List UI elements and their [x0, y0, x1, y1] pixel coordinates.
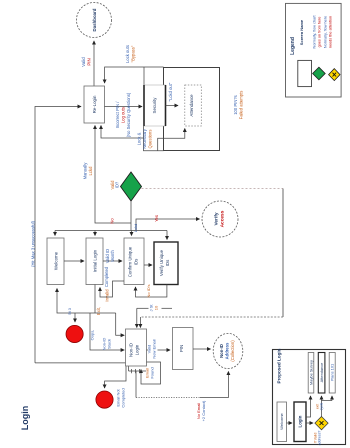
svg-text:Lock outs: Lock outs: [125, 45, 130, 63]
wire Manually Lckd riser to Re-Login bottom: [95, 126, 131, 224]
svg-text:10: 10: [154, 305, 159, 310]
svg-text:PIN: PIN: [87, 58, 92, 65]
wire Security to Attendance: [166, 105, 179, 107]
svg-text:No ID's: No ID's: [146, 285, 151, 298]
svg-text:Incorrect PIN /: Incorrect PIN /: [115, 101, 120, 129]
wire Attendance return loop: [158, 129, 185, 151]
node Non-ID Address (Collection) dashed circle: [213, 333, 243, 368]
process Attendance (dashed): [185, 85, 202, 126]
wire bottom bus with arrow up into Welcome: [57, 289, 116, 314]
svg-text:St 3: St 3: [68, 308, 72, 315]
wire bus to top boxes: [131, 230, 167, 232]
wire Initial Login to Confirm: [103, 260, 122, 262]
svg-text:Address: Address: [225, 342, 230, 359]
svg-text:Confirm Unique: Confirm Unique: [128, 246, 133, 277]
process Verify Unique IDs (thick): [154, 242, 178, 285]
svg-text:Attendance: Attendance: [319, 363, 324, 383]
svg-text:goes on from here: goes on from here: [318, 17, 322, 48]
process Welcome (panel): [277, 402, 287, 442]
wire Initial Login bottom down: [94, 285, 96, 314]
svg-text:Login: Login: [298, 415, 303, 427]
process Login (panel, thick): [294, 402, 306, 442]
svg-text:address?: address?: [318, 431, 322, 446]
wire top elbow into Re-Login: [105, 67, 164, 83]
wire container1 bottom ledge: [144, 126, 164, 151]
svg-text:IDs: IDs: [134, 258, 139, 265]
wire PIN to Non-ID Address: [193, 348, 211, 350]
svg-text:Necessary: Necessary: [142, 128, 147, 149]
wire Re-Login to Security: [105, 106, 143, 108]
svg-text:Verify: Verify: [214, 212, 220, 225]
svg-text:New Email: New Email: [152, 339, 157, 358]
wire dotted return: [135, 371, 137, 398]
wire Welcome to Login: [287, 422, 293, 424]
svg-text:Attendance: Attendance: [189, 94, 194, 117]
svg-text:(No Security Questions): (No Security Questions): [126, 92, 131, 137]
svg-text:Log outs: Log outs: [121, 107, 126, 123]
svg-text:Dashboard: Dashboard: [92, 8, 97, 31]
svg-text:ID?: ID?: [115, 181, 120, 188]
end error red circle 1: [66, 325, 83, 342]
wire to error end 2: [105, 367, 126, 389]
process Security (thick sides): [144, 85, 166, 126]
svg-text:No: No: [110, 218, 115, 224]
legend yellow diamond with X: [329, 69, 340, 81]
process PIN: [173, 328, 194, 370]
wires into panel boxes: [306, 396, 311, 417]
svg-text:Plans 101: Plans 101: [330, 364, 335, 381]
legend box: [286, 3, 342, 97]
legend green diamond: [313, 67, 326, 80]
wire down into error end 1: [74, 313, 76, 322]
svg-text:"Lckd out": "Lckd out": [168, 82, 173, 101]
legend screen rect symbol: [298, 60, 312, 86]
wire Welcome to Initial Login: [64, 260, 84, 262]
svg-text:Non-ID: Non-ID: [219, 344, 224, 358]
svg-text:Security: Security: [152, 97, 157, 114]
process Initial Login: [86, 238, 103, 285]
svg-text:Welcome: Welcome: [279, 412, 284, 429]
wires double arrows into Non-ID Login top: [136, 308, 138, 327]
wire down to Non-ID Login: [90, 313, 124, 350]
wire retry loop under Non-ID Login: [141, 362, 161, 384]
wire stub into Security top: [143, 67, 145, 85]
process Maybe Survey: [308, 353, 314, 394]
svg-text:Normally, flow here: Normally, flow here: [323, 16, 327, 48]
svg-text:100 PIN?s: 100 PIN?s: [233, 95, 238, 115]
process Plans 101: [329, 353, 335, 394]
decision yellow diamond with X: [315, 417, 328, 430]
wire Security return to Re-Login: [101, 126, 144, 139]
node Verify Access (dashed circle): [202, 201, 238, 237]
svg-text:Lckd: Lckd: [88, 166, 93, 176]
svg-text:Stuck: Stuck: [107, 339, 112, 349]
process Re-Login: [84, 86, 105, 123]
svg-text:Maybe Survey: Maybe Survey: [308, 360, 313, 385]
decision green diamond Valid ID?: [121, 172, 142, 201]
wire Login to yellow diamond: [306, 422, 313, 424]
svg-text:Non-ID: Non-ID: [128, 343, 133, 357]
process Attendance (panel, thick): [318, 353, 325, 394]
svg-text:Normally, flow chart: Normally, flow chart: [313, 15, 317, 49]
svg-text:Completed: Completed: [104, 266, 109, 287]
svg-text:Proposed Login: Proposed Login: [277, 348, 282, 383]
svg-text:Found: Found: [150, 367, 155, 378]
svg-text:Welcome: Welcome: [54, 251, 59, 270]
wire left long line into Re-Login: [35, 107, 81, 363]
svg-text:Login: Login: [134, 344, 139, 355]
svg-text:Valid: Valid: [81, 57, 86, 67]
process Confirm Unique IDs: [124, 238, 144, 285]
process Welcome: [47, 238, 64, 285]
wire feed line with J St 10 label: [137, 307, 149, 309]
svg-text:cycle: cycle: [320, 403, 324, 411]
svg-text:Oops,: Oops,: [90, 330, 95, 341]
svg-text:(Collection): (Collection): [230, 340, 235, 362]
container 2 (group box): [164, 68, 220, 151]
svg-text:Legend: Legend: [290, 37, 296, 55]
process Non-ID Login: [126, 329, 147, 366]
svg-text:PIN: PIN: [179, 345, 184, 352]
svg-text:Month: Month: [110, 250, 115, 262]
svg-text:(Hit Max 3 unsuccessful): (Hit Max 3 unsuccessful): [31, 220, 36, 266]
end error red circle 2: [96, 391, 113, 408]
svg-text:Lckd: Lckd: [133, 224, 138, 232]
svg-text:Exit,: Exit,: [96, 307, 101, 315]
wire diamond down: [130, 201, 132, 231]
wire arrow to Dashboard: [93, 41, 95, 86]
wire Verify bottom to Confirm bottom return: [136, 285, 167, 298]
container 3 (dashed top, solid right/bottom): [142, 188, 284, 190]
svg-text:Login: Login: [20, 406, 30, 431]
wire circle bottom return: [136, 397, 200, 399]
svg-text:Initial Login: Initial Login: [93, 249, 98, 272]
svg-text:Lock &: Lock &: [137, 132, 142, 145]
wire invalid return into Initial Login bottom: [100, 281, 124, 297]
svg-text:needs the attention: needs the attention: [328, 16, 332, 48]
svg-text:Questions: Questions: [148, 130, 153, 149]
wire Yes line to Verify Access: [136, 219, 200, 231]
svg-text:+2 Contact): +2 Contact): [201, 400, 206, 421]
svg-text:Yes: Yes: [154, 215, 159, 222]
svg-text:Invalid: Invalid: [105, 289, 110, 302]
svg-text:Failed attempts: Failed attempts: [239, 91, 244, 120]
wire Non-ID Login to PIN: [147, 349, 171, 351]
svg-text:"Bypass": "Bypass": [131, 45, 136, 62]
svg-text:Re-Login: Re-Login: [92, 95, 97, 113]
proposed login panel: [273, 350, 346, 445]
svg-text:IDs: IDs: [165, 259, 170, 266]
node Dashboard (dashed circle): [77, 3, 112, 38]
svg-text:Screen Name: Screen Name: [299, 19, 304, 45]
wire bracket under Non-ID Login: [129, 370, 147, 372]
svg-text:Verify Unique: Verify Unique: [159, 249, 164, 276]
wire Confirm to Verify Unique: [144, 264, 152, 266]
svg-text:Completed: Completed: [121, 388, 126, 407]
svg-text:Manually: Manually: [83, 162, 88, 180]
svg-text:Access: Access: [220, 210, 226, 227]
